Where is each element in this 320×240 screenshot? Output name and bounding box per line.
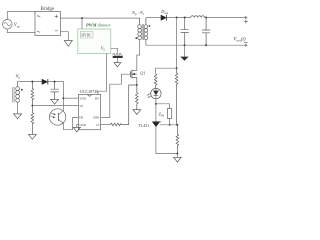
- resistor Rfb lower: [176, 125, 179, 154]
- wire pulse icon to ground: [116, 58, 118, 63]
- capacitor C2: [202, 18, 210, 46]
- node ZFB ref: [169, 124, 171, 126]
- svg-text:TL431: TL431: [139, 124, 150, 128]
- wire inductor to output +: [205, 17, 247, 19]
- wire tee to LED branch: [156, 68, 177, 74]
- resistor RS1: [31, 82, 34, 106]
- node return cap1: [184, 44, 186, 46]
- resistor Rfb upper: [175, 68, 178, 126]
- wire bridge + output bus: [61, 17, 141, 19]
- svg-text:CS: CS: [96, 123, 100, 127]
- wire CS sense: [101, 124, 111, 126]
- resistor RCS: [136, 85, 139, 110]
- label output minus: [244, 42, 248, 44]
- ground output (filled): [184, 45, 186, 57]
- ground feedback: [176, 154, 178, 158]
- wire primary bottom to Q1 drain: [137, 41, 140, 71]
- wire Q1 gate: [101, 74, 131, 117]
- svg-text:Q1: Q1: [140, 71, 145, 76]
- ground Cdd: [51, 99, 59, 104]
- node ref divider junction: [176, 124, 178, 126]
- transistor Q1: [129, 71, 131, 77]
- node sense tee: [176, 67, 178, 69]
- node cap2 top: [205, 17, 207, 19]
- TL431 U3: [152, 121, 160, 123]
- wire TL431 anode: [156, 127, 178, 154]
- wire VG output: [111, 48, 118, 53]
- svg-text:Np : Ns: Np : Ns: [131, 10, 145, 16]
- bridge rectifier: [35, 12, 61, 36]
- svg-text:Dout: Dout: [160, 9, 168, 15]
- optocoupler LED: [151, 88, 161, 98]
- AC source VAC: [3, 19, 13, 29]
- node divider top: [31, 81, 33, 83]
- LED emission arrows: [147, 93, 151, 98]
- aux polarity dot: [21, 89, 23, 91]
- node cap1 top: [184, 17, 186, 19]
- node Q1 source: [136, 84, 138, 86]
- aux core: [13, 87, 14, 103]
- svg-text:Vout(t): Vout(t): [233, 37, 246, 42]
- diode Dout: [161, 15, 167, 20]
- wire HV riser to dimmer: [98, 53, 107, 94]
- node VS tap: [31, 105, 33, 107]
- ground bridge: [64, 41, 72, 47]
- label output plus: [244, 20, 248, 24]
- ground RCS: [133, 110, 141, 115]
- node Cdd top: [54, 81, 56, 83]
- wire GND pin: [77, 125, 79, 128]
- ground aux winding: [14, 114, 22, 119]
- wire secondary top to diode: [146, 17, 161, 19]
- svg-text:UCC28740: UCC28740: [80, 89, 98, 94]
- ground VG: [114, 63, 121, 67]
- wire aux to ground: [17, 104, 19, 114]
- svg-text:Vac: Vac: [14, 23, 21, 28]
- wire LED cathode to TL431: [155, 99, 157, 122]
- PWM dimmer block: [78, 29, 111, 53]
- optocoupler phototransistor: [49, 109, 65, 125]
- auxiliary winding Na: [17, 82, 19, 104]
- diode Daux: [42, 79, 48, 84]
- svg-text:HV: HV: [95, 96, 100, 100]
- svg-text:PWM dimmer: PWM dimmer: [86, 23, 111, 28]
- bridge ~ mark bottom: [37, 31, 40, 32]
- svg-text:FB: FB: [79, 116, 83, 120]
- wire diode to inductor: [166, 17, 190, 19]
- ground controller: [73, 127, 80, 131]
- bridge + mark: [55, 15, 58, 18]
- svg-text:VS: VS: [79, 104, 83, 108]
- bridge - mark: [55, 30, 58, 32]
- svg-text:Na: Na: [15, 73, 21, 79]
- node return cap2: [205, 44, 207, 46]
- svg-text:VDD: VDD: [79, 96, 86, 100]
- node anode bottom: [176, 153, 178, 155]
- inductor Lout: [191, 16, 205, 18]
- bridge ~ mark top: [37, 16, 40, 17]
- node HVDC bus junction: [81, 17, 83, 19]
- output + terminal tick: [245, 16, 247, 19]
- resistor RS2: [31, 106, 34, 135]
- node feedback tap: [176, 17, 178, 19]
- svg-text:ZFB: ZFB: [159, 112, 165, 117]
- svg-text:HVDC: HVDC: [81, 34, 92, 38]
- node ZFB top tee: [155, 103, 157, 105]
- wire VS pin: [32, 105, 78, 107]
- wire AC bottom to bridge: [7, 29, 35, 33]
- output - terminal tick: [245, 44, 247, 47]
- wire TL431 ref: [160, 124, 178, 126]
- HVDC port box: [80, 32, 93, 39]
- wire AC top to bridge: [7, 12, 35, 20]
- secondary polarity dot: [149, 25, 151, 27]
- secondary winding Ns: [145, 18, 147, 42]
- wire HVDC riser into dimmer box: [81, 18, 83, 29]
- resistor RLED: [154, 74, 157, 88]
- primary polarity dot: [135, 37, 137, 39]
- PWM pulse waveform icon: [113, 54, 122, 56]
- wire aux rail: [18, 81, 43, 83]
- svg-text:Bridge: Bridge: [40, 7, 54, 12]
- svg-text:GND: GND: [79, 123, 86, 127]
- wire opto emitter to FB: [63, 117, 78, 129]
- wire diode to VDD corner: [48, 82, 64, 109]
- resistor RLC: [111, 85, 137, 126]
- core: [142, 24, 143, 40]
- wire secondary return rail: [146, 41, 247, 45]
- node VDD tee: [62, 97, 64, 99]
- wire VDD pin: [63, 97, 78, 99]
- opto reception arrows: [50, 113, 55, 118]
- impedance ZFB box: [168, 109, 172, 119]
- ground RS2: [29, 135, 37, 140]
- wire bridge - to ground: [61, 32, 69, 41]
- capacitor C1: [181, 18, 189, 46]
- controller U1 UCC28740: [78, 94, 100, 129]
- wire ZFB top: [156, 104, 170, 109]
- wire feedback sense riser: [176, 18, 178, 69]
- wire ZFB bottom: [169, 118, 171, 124]
- svg-text:DRV: DRV: [93, 116, 100, 120]
- capacitor Cdd: [51, 82, 59, 100]
- primary winding Np: [139, 18, 141, 41]
